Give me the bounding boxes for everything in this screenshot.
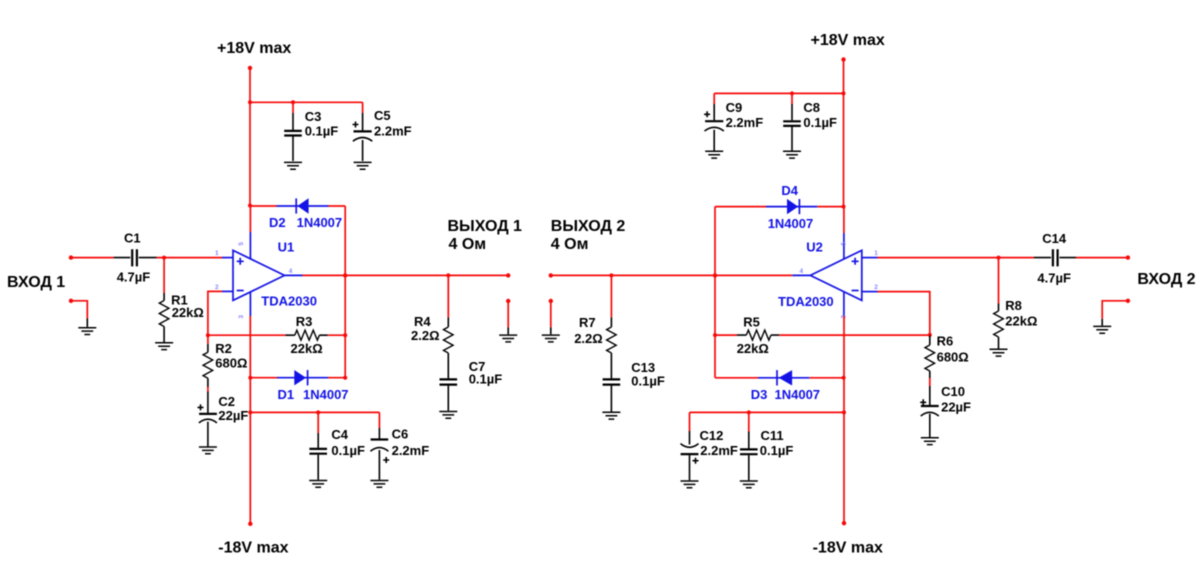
wire input 2 ground stub (1102, 301, 1128, 326)
input 1 ground stub node (69, 299, 73, 303)
op-amp U1 pin 4 output stub (285, 268, 303, 275)
-18V supply label (right) (813, 539, 883, 556)
+18V supply label (left) (217, 40, 291, 57)
wire output 2 ground stub (550, 301, 552, 334)
svg-text:3: 3 (238, 315, 245, 319)
svg-text:TDA2030: TDA2030 (261, 294, 317, 309)
+18V terminal node (right) (841, 57, 845, 61)
ground below C13 (602, 412, 620, 419)
op-amp U1 pin 3 lead (238, 292, 250, 319)
op-amp U1 pin 5 lead (238, 206, 250, 260)
svg-text:4.7µF: 4.7µF (1037, 270, 1071, 285)
+18V supply label (right) (811, 32, 885, 49)
svg-text:1N4007: 1N4007 (303, 387, 349, 402)
wire input 1 to C1 (71, 257, 114, 259)
resistor R3 22k feedback (208, 314, 345, 356)
op-amp U2 pin 5 lead (841, 207, 848, 259)
svg-text:22µF: 22µF (941, 399, 971, 414)
wire C14 to input 2 terminal (1076, 257, 1128, 259)
svg-text:0.1µF: 0.1µF (631, 374, 665, 389)
resistor R2 680 (203, 335, 247, 413)
svg-text:2.2mF: 2.2mF (700, 443, 738, 458)
ground below C12 (681, 481, 699, 488)
op-amp U2 TDA2030 (778, 240, 862, 310)
svg-text:2.2Ω: 2.2Ω (411, 328, 440, 343)
op-amp U2 pin 4 output stub (792, 268, 810, 275)
svg-text:4 Ом: 4 Ом (551, 236, 589, 253)
wire D4 branch (715, 206, 844, 208)
wire output vertical (D2-output-R3-D1) (344, 206, 346, 378)
svg-text:C10: C10 (941, 384, 965, 399)
ground below C3 (284, 162, 302, 169)
node R3 right on vertical (343, 333, 347, 337)
output 1 label (448, 218, 523, 253)
svg-text:2.2mF: 2.2mF (374, 123, 412, 138)
svg-text:1N4007: 1N4007 (775, 387, 821, 402)
resistor R6 680 (925, 333, 969, 405)
wire output 1 ground stub (507, 301, 509, 334)
wire -18V rail vertical (left) (249, 316, 251, 524)
output 2 terminal node (549, 273, 553, 277)
node R4 tap (446, 273, 450, 277)
wire op-amp U2 pin2 to feedback node (878, 292, 930, 335)
ground below output 1 (499, 335, 517, 342)
resistor R1 22k (159, 258, 204, 342)
svg-text:C11: C11 (761, 428, 784, 443)
node C11 tap (747, 410, 751, 414)
ground below C10 (921, 438, 939, 445)
svg-text:U2: U2 (806, 240, 823, 255)
input 2 terminal node (1126, 255, 1130, 259)
svg-text:2: 2 (215, 284, 219, 291)
op-amp U2 pin 2 stub (862, 284, 878, 291)
svg-text:-18V max: -18V max (218, 539, 288, 556)
output 1 terminal node (506, 273, 510, 277)
svg-text:1N4007: 1N4007 (297, 215, 343, 230)
svg-text:ВЫХОД 1: ВЫХОД 1 (448, 218, 523, 235)
svg-text:-18V max: -18V max (813, 539, 883, 556)
svg-text:2: 2 (874, 284, 878, 291)
ground below output 2 (542, 335, 560, 342)
svg-text:R3: R3 (296, 314, 313, 329)
svg-text:C9: C9 (726, 100, 743, 115)
op-amp U2 pin 1 stub (862, 250, 878, 257)
input 2 label (1137, 271, 1195, 288)
svg-text:5: 5 (841, 242, 848, 246)
node rail/bottom bypass tee (right) (842, 410, 846, 414)
wire op-amp pin2 to feedback node (208, 291, 222, 335)
svg-text:0.1µF: 0.1µF (331, 443, 365, 458)
-18V terminal node (left) (248, 522, 252, 526)
svg-text:2.2mF: 2.2mF (392, 443, 430, 458)
op-amp U1 pin 2 stub (215, 284, 233, 291)
op-amp U1 TDA2030 (233, 240, 317, 309)
wire top bypass branch horizontal (right) (714, 92, 843, 94)
diode D1 1N4007 (278, 370, 349, 402)
wire op-amp output to output 1 terminal (303, 274, 509, 276)
capacitor C8 (783, 93, 837, 152)
ground below C4 (309, 481, 327, 488)
svg-text:2.2Ω: 2.2Ω (574, 331, 603, 346)
capacitor C14 (1034, 231, 1076, 285)
svg-text:C5: C5 (374, 108, 391, 123)
svg-text:R2: R2 (215, 341, 232, 356)
svg-text:4: 4 (289, 268, 293, 275)
svg-text:22kΩ: 22kΩ (737, 341, 769, 356)
svg-text:680Ω: 680Ω (937, 350, 969, 365)
svg-text:22kΩ: 22kΩ (1005, 313, 1037, 328)
ground below C11 (740, 481, 758, 488)
svg-text:R6: R6 (937, 333, 954, 348)
wire D1 branch (250, 377, 345, 379)
svg-text:U1: U1 (278, 240, 295, 255)
svg-text:ВЫХОД 2: ВЫХОД 2 (551, 218, 626, 235)
svg-text:D3: D3 (751, 387, 768, 402)
node C14/R8 tee (997, 256, 1001, 260)
capacitor C10 (polarized) (920, 384, 971, 437)
wire D2 branch (250, 205, 345, 207)
op-amp U2 pin 3 lead (841, 292, 848, 319)
node R2/R3 feedback tee (206, 333, 210, 337)
ground below input 1 (78, 328, 96, 335)
ground below C6 (370, 481, 388, 488)
svg-text:4: 4 (800, 268, 804, 275)
-18V terminal node (right) (842, 521, 846, 525)
ground below C8 (783, 151, 801, 158)
resistor R7 2.2 (574, 275, 616, 378)
node rail/bypass tee (left) (248, 100, 252, 104)
input 1 label (7, 274, 65, 291)
wire output vertical (D4-output-R5-D3) (714, 207, 716, 378)
node R5 left on vertical (713, 333, 717, 337)
capacitor C1 (114, 231, 157, 285)
svg-text:1N4007: 1N4007 (768, 216, 814, 231)
node R7 tap (609, 273, 613, 277)
svg-text:TDA2030: TDA2030 (778, 294, 834, 309)
capacitor C4 (309, 412, 365, 479)
node D4 / pin5 tee (842, 205, 846, 209)
svg-text:4 Ом: 4 Ом (449, 236, 487, 253)
node D1 left on rail (248, 376, 252, 380)
svg-text:22µF: 22µF (218, 408, 248, 423)
ground below R1 (155, 343, 173, 350)
svg-text:0.1µF: 0.1µF (760, 443, 794, 458)
capacitor C13 (603, 360, 665, 412)
resistor R4 2.2 (411, 275, 453, 378)
node output/vertical tee (right) (713, 273, 717, 277)
ground below C7 (439, 412, 457, 419)
capacitor C12 (polarized) (681, 412, 738, 480)
svg-text:ВХОД 2: ВХОД 2 (1137, 271, 1195, 288)
node R5/R6 feedback tee (928, 333, 932, 337)
ground below C5 (354, 162, 372, 169)
svg-text:2.2mF: 2.2mF (726, 115, 764, 130)
output 2 ground stub node (549, 299, 553, 303)
node rail/bottom bypass tee (left) (248, 410, 252, 414)
ground below C9 (705, 151, 723, 158)
node D1 right on vertical (343, 376, 347, 380)
capacitor C5 (polarized) (353, 102, 412, 161)
svg-text:1: 1 (874, 250, 878, 257)
capacitor C3 (284, 102, 338, 161)
svg-text:R8: R8 (1005, 298, 1022, 313)
ground below C2 (199, 447, 217, 454)
node D2 / pin5 tee (248, 204, 252, 208)
op-amp U1 pin 1 stub (215, 250, 233, 257)
svg-text:+18V max: +18V max (217, 40, 291, 57)
svg-text:C4: C4 (331, 427, 348, 442)
input 1 terminal node (69, 255, 73, 259)
svg-text:C14: C14 (1042, 231, 1067, 246)
svg-text:0.1µF: 0.1µF (305, 124, 339, 139)
output 2 label (551, 218, 626, 253)
output 1 ground stub node (506, 299, 510, 303)
svg-text:C8: C8 (803, 100, 820, 115)
wire bottom bypass branch horizontal (left) (250, 411, 379, 413)
-18V supply label (left) (218, 539, 288, 556)
svg-text:680Ω: 680Ω (215, 356, 247, 371)
svg-text:D4: D4 (781, 183, 798, 198)
node output/vertical tee (343, 273, 347, 277)
input 2 ground stub node (1126, 299, 1130, 303)
diode D4 1N4007 (768, 183, 814, 231)
node C8 tap (790, 91, 794, 95)
wire top bypass branch horizontal (left) (250, 101, 363, 103)
svg-text:ВХОД 1: ВХОД 1 (7, 274, 65, 291)
svg-text:0.1µF: 0.1µF (803, 115, 837, 130)
+18V terminal node (left) (248, 66, 252, 70)
wire +18V rail vertical top (left) (249, 68, 251, 206)
svg-text:0.1µF: 0.1µF (469, 372, 503, 387)
node C1/R1 tee (162, 256, 166, 260)
capacitor C11 (740, 412, 793, 480)
wire bottom bypass branch horizontal (right) (690, 411, 845, 413)
capacitor C9 (polarized) (704, 93, 763, 152)
resistor R8 22k (994, 258, 1038, 349)
wire +18V rail vertical top (right) (843, 60, 845, 207)
wire op-amp U2 pin1 to C14 (878, 257, 1035, 259)
svg-text:C3: C3 (305, 109, 322, 124)
capacitor C2 (polarized) (198, 394, 249, 446)
svg-text:D2: D2 (269, 215, 286, 230)
svg-text:22kΩ: 22kΩ (291, 341, 323, 356)
svg-text:5: 5 (238, 242, 245, 246)
svg-text:C12: C12 (700, 428, 724, 443)
capacitor C7 (440, 359, 503, 411)
wire C1 to op-amp pin1 (157, 257, 222, 259)
wire -18V rail vertical (right) (843, 316, 845, 523)
svg-text:C1: C1 (124, 231, 141, 246)
svg-text:C2: C2 (218, 394, 235, 409)
node C4 tap (316, 410, 320, 414)
svg-text:R7: R7 (579, 315, 596, 330)
svg-text:1: 1 (215, 250, 219, 257)
wire output 2 terminal to op-amp output (551, 274, 793, 276)
svg-text:R4: R4 (414, 314, 431, 329)
capacitor C6 (polarized) (370, 412, 429, 479)
node C3 tap (291, 100, 295, 104)
diode D3 1N4007 (751, 370, 820, 402)
svg-text:R5: R5 (743, 315, 760, 330)
svg-text:+18V max: +18V max (811, 32, 885, 49)
svg-text:4.7µF: 4.7µF (117, 269, 151, 284)
node rail/bypass tee (right) (842, 91, 846, 95)
ground below R8 (990, 349, 1008, 356)
wire input 1 ground stub (71, 301, 87, 327)
svg-text:C6: C6 (392, 427, 409, 442)
resistor R5 22k feedback (715, 315, 930, 356)
svg-text:D1: D1 (278, 387, 295, 402)
svg-text:22kΩ: 22kΩ (172, 305, 204, 320)
diode D2 1N4007 (269, 198, 342, 230)
node D3 right on rail (842, 376, 846, 380)
wire D3 branch (715, 377, 844, 379)
ground below input 2 (1093, 326, 1111, 333)
